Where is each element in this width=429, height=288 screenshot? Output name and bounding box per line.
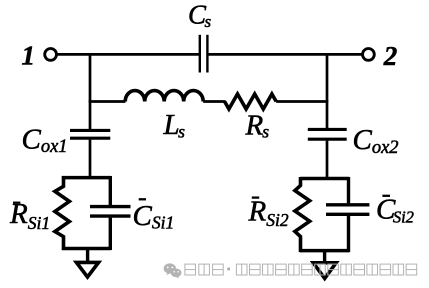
svg-text:Cox1: Cox1 <box>22 123 68 157</box>
watermark icon (wechat) <box>164 263 182 278</box>
resistor RSi2 <box>295 177 310 252</box>
svg-text:RSi2: RSi2 <box>248 195 289 230</box>
capacitor Cox2 <box>308 129 347 139</box>
port terminal 2 <box>363 49 375 61</box>
svg-text:RSi1: RSi1 <box>9 198 50 233</box>
svg-text:Cs: Cs <box>188 0 212 31</box>
wire top right (Cs to port2) <box>208 53 362 56</box>
wire middle branch center <box>203 100 225 103</box>
ground right <box>313 263 336 279</box>
label RSi1 (overbar) <box>13 202 20 204</box>
box1 top rail <box>62 176 111 180</box>
svg-text:2: 2 <box>383 41 398 71</box>
node B: right junction vertical wire <box>326 53 329 128</box>
label CSi1 (overbar) <box>139 198 146 200</box>
ground left <box>76 262 98 277</box>
watermark separator dot <box>227 268 230 271</box>
svg-text:CSi1: CSi1 <box>133 200 175 233</box>
wire Cox1 to box1 <box>89 140 92 179</box>
svg-text:CSi2: CSi2 <box>376 194 414 227</box>
box2 top rail <box>300 177 349 181</box>
node A: left junction vertical wire <box>89 53 92 129</box>
inductor Ls <box>125 91 203 102</box>
wire top left (port1 to Cs) <box>57 53 200 56</box>
label RSi2 (overbar) <box>252 196 259 198</box>
ground right stem <box>323 251 326 264</box>
svg-text:Cox2: Cox2 <box>353 124 399 158</box>
wire middle branch right <box>276 100 328 103</box>
capacitor CSi1 <box>90 176 131 250</box>
capacitor Cs <box>200 35 208 73</box>
watermark text (vector substitute for CJK) <box>185 264 417 275</box>
ground left stem <box>86 249 89 264</box>
box2 bottom rail <box>300 249 349 253</box>
capacitor CSi2 <box>326 177 369 252</box>
box1 bottom rail <box>62 247 111 251</box>
capacitor Cox1 <box>70 130 110 138</box>
resistor Rs <box>225 94 277 109</box>
wire Cox2 to box2 <box>326 141 329 180</box>
resistor RSi1 <box>55 176 70 250</box>
wire middle branch left <box>89 100 126 103</box>
port terminal 1 <box>45 49 57 61</box>
label CSi2 (overbar) <box>382 195 390 197</box>
svg-text:Rs: Rs <box>245 110 270 142</box>
svg-text:Ls: Ls <box>163 109 186 142</box>
svg-text:1: 1 <box>22 41 36 71</box>
